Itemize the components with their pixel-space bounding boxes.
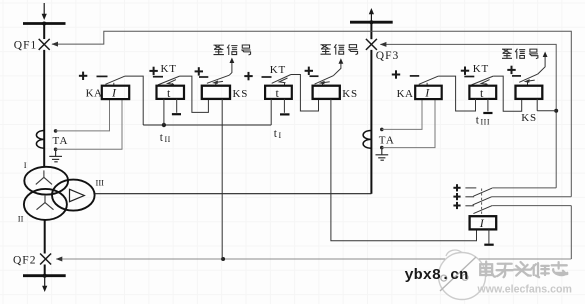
- wire KT1 coil legs: [163, 99, 165, 125]
- wire KT3 coil legs: [475, 99, 477, 111]
- svg-text:KA: KA: [397, 88, 414, 100]
- plus KS2: [305, 67, 313, 75]
- wire winding III to right feeder: [95, 193, 372, 195]
- relay KT2: [265, 86, 292, 100]
- plus KT3: [461, 67, 469, 75]
- wire: [43, 50, 45, 168]
- svg-text:TA: TA: [53, 135, 69, 147]
- incoming arrow top-left: [42, 3, 47, 20]
- node TA3 secondary b: [380, 146, 384, 150]
- wire: [370, 50, 372, 194]
- watermark 电子发烧友 (stylized): [480, 262, 567, 278]
- arrow KS2 to signal: [333, 58, 343, 75]
- contact KT3 (delayed): [472, 76, 494, 86]
- wire KS3 coil legs: [536, 99, 538, 111]
- arrow KS1 to signal: [229, 58, 234, 76]
- minus KA3: [410, 75, 419, 77]
- minus KS2: [310, 75, 319, 77]
- transformer winding I: [24, 160, 68, 195]
- svg-text:KT: KT: [270, 64, 286, 76]
- plus KS1: [195, 67, 203, 75]
- svg-text:KS: KS: [521, 112, 537, 124]
- wire KT1 contact to KS1 coil: [180, 76, 209, 112]
- outgoing arrow top-right: [369, 8, 374, 22]
- bus KT coils: [143, 124, 271, 126]
- outgoing arrow bottom-left: [42, 276, 47, 292]
- wire KT2 contact to KS2 coil: [291, 75, 319, 112]
- contact KA3: [419, 76, 439, 86]
- svg-text:KA: KA: [86, 87, 103, 99]
- wire KS2 to aux relay coil: [331, 99, 477, 241]
- wire: [44, 220, 46, 254]
- arrow into QF1: [52, 42, 59, 47]
- ground TA3: [376, 148, 389, 161]
- minus terminal KT3: [483, 112, 492, 114]
- svg-text:www.elecfans.com: www.elecfans.com: [477, 283, 572, 295]
- plus KA3: [392, 70, 400, 78]
- label 至信号 (1): [214, 45, 251, 55]
- wire TA3a to KA3 coil: [382, 99, 422, 129]
- minus KS3: [512, 75, 521, 77]
- transformer winding III: [52, 178, 104, 211]
- relay KS3: [516, 86, 543, 124]
- minus KT2: [262, 76, 272, 78]
- wire KT2 coil legs: [270, 99, 272, 125]
- contact KT2 (delayed): [272, 75, 291, 86]
- node KS1 / QF2 trip: [221, 257, 225, 261]
- wire: [370, 22, 372, 39]
- linkage dashed: [481, 189, 483, 217]
- node KT1 coil: [162, 123, 166, 127]
- svg-text:KT: KT: [473, 63, 489, 75]
- node TA1 secondary b: [54, 148, 58, 152]
- node TA3 secondary a: [380, 128, 384, 132]
- relay KT3: [469, 86, 496, 100]
- wire QF1 trip net: [52, 31, 571, 197]
- wire TA1a to KA1 coil: [56, 99, 110, 131]
- svg-text:ybx8.cn: ybx8.cn: [405, 266, 469, 284]
- relay KS1: [202, 86, 248, 101]
- minus KT1: [153, 76, 163, 78]
- plus KT1: [149, 67, 157, 75]
- plus KT2: [244, 72, 252, 80]
- busbar 2: [23, 274, 66, 278]
- arrow into QF3: [380, 42, 387, 47]
- svg-text:QF1: QF1: [14, 40, 37, 52]
- minus KT3: [464, 76, 474, 78]
- minus terminal KT1: [172, 113, 181, 115]
- relay KA3: [397, 86, 442, 100]
- arrow KS3 to signal: [538, 52, 548, 75]
- svg-text:II: II: [18, 213, 24, 223]
- contact KS2: [315, 76, 334, 86]
- plus KA1: [79, 72, 87, 80]
- wire row3 to QF2 net: [492, 205, 571, 207]
- ground TA1: [49, 149, 62, 162]
- contact row3: [465, 206, 492, 214]
- wire KT3 contact to KS3 coil: [493, 76, 522, 111]
- contact row2: [465, 197, 491, 205]
- contact KA1: [105, 76, 125, 86]
- plus row2: [453, 193, 460, 200]
- breaker QF2: [40, 254, 51, 265]
- wire row2 to QF1 net: [492, 196, 572, 198]
- minus KA1: [97, 75, 108, 77]
- arrow into QF2: [56, 257, 63, 262]
- current transformer TA1: [36, 131, 68, 149]
- svg-text:TA: TA: [379, 135, 395, 147]
- wire KA3 contact to KT3 coil: [438, 76, 475, 111]
- wire aux coil right leg: [488, 229, 490, 243]
- svg-text:QF2: QF2: [13, 255, 36, 267]
- contact KS3: [519, 74, 538, 86]
- wire TA3b to KA3 coil: [382, 99, 435, 148]
- relay KS2: [313, 86, 358, 101]
- svg-text:III: III: [96, 178, 105, 188]
- busbar 1: [23, 22, 66, 26]
- contact KT1 (delayed): [158, 76, 180, 86]
- svg-text:KT: KT: [161, 63, 177, 75]
- wire: [43, 24, 45, 40]
- wire QF3 trip net: [380, 44, 556, 188]
- wire KS1 to QF2 trip: [221, 99, 223, 259]
- transformer winding II: [18, 189, 67, 223]
- label 至信号 (2): [321, 44, 358, 54]
- minus KS1: [199, 76, 208, 78]
- wire QF2 trip net: [56, 258, 571, 260]
- aux relay coil box: [470, 216, 497, 230]
- svg-text:KS: KS: [233, 88, 249, 100]
- minus terminal KT2: [280, 113, 290, 115]
- label 至信号 (3): [502, 49, 538, 59]
- relay KA1: [86, 86, 130, 100]
- relay KT1: [157, 86, 185, 100]
- logo circle: [439, 250, 486, 299]
- breaker QF1: [39, 39, 50, 50]
- contact row1: [465, 188, 492, 196]
- breaker QF3: [366, 39, 377, 50]
- current transformer TA3: [363, 131, 395, 149]
- contact KS1: [207, 75, 229, 86]
- plus KS3: [507, 66, 515, 74]
- minus terminal aux: [484, 244, 493, 246]
- wire TA1b to KA1 coil: [56, 99, 122, 149]
- svg-text:I: I: [24, 160, 27, 170]
- node QF3-net / KS3: [554, 109, 558, 113]
- wire KA1 contact to bus: [125, 76, 143, 125]
- plus row1: [453, 184, 460, 191]
- plus row3: [453, 202, 460, 209]
- svg-text:KS: KS: [342, 88, 358, 100]
- busbar 3: [350, 20, 393, 24]
- wire row1 to QF3 net: [492, 187, 556, 189]
- wire: [44, 265, 46, 276]
- svg-text:QF3: QF3: [376, 50, 399, 62]
- node TA1 secondary a: [54, 129, 58, 133]
